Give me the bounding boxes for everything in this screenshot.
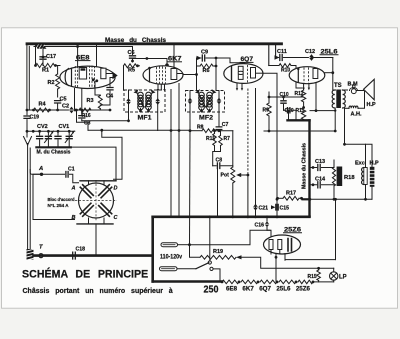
wire AVC bus y131 — [264, 111, 337, 133]
wire R18 squiggle — [332, 160, 335, 201]
variable capacitor CV1 — [55, 124, 75, 147]
wire R19 tap junction — [275, 256, 278, 259]
plug prong top — [161, 243, 191, 247]
svg-text:C3: C3 — [84, 121, 91, 127]
svg-text:MF1: MF1 — [138, 115, 152, 122]
svg-text:A.H.: A.H. — [351, 112, 362, 118]
label Masse du Chassis (top) — [105, 37, 166, 44]
svg-text:C16: C16 — [255, 223, 265, 229]
svg-text:TS: TS — [334, 83, 342, 89]
svg-text:Châssis portant un numéro supé: Châssis portant un numéro supérieur à — [23, 288, 173, 295]
rotary switch contact A — [71, 185, 94, 198]
svg-text:R4: R4 — [39, 101, 47, 107]
svg-text:R17: R17 — [286, 191, 296, 197]
wire HT drop to C11 — [269, 45, 276, 66]
capacitor C21 — [253, 89, 268, 219]
inductor Exc — [362, 168, 368, 185]
wire R5 to MF1 trimmer — [123, 66, 125, 90]
antenna — [24, 137, 32, 147]
tube 6K7 grid cap — [165, 63, 169, 67]
tube 6Q7 label — [240, 57, 254, 63]
wire B- row y199 — [310, 198, 372, 201]
resistor R17 — [276, 191, 303, 201]
wire antenna to node A hook — [30, 170, 41, 175]
switch power — [196, 215, 220, 281]
wire TS bottom right down — [343, 108, 346, 145]
svg-text:CV1: CV1 — [59, 124, 70, 130]
wire MF1 bottom taps — [139, 109, 150, 113]
tube 25Z6 envelope — [264, 235, 301, 254]
wire cathode row top — [268, 92, 305, 109]
capacitor C18 — [73, 247, 85, 260]
capacitor C12 — [305, 49, 333, 61]
transformer MF1 label — [138, 115, 152, 122]
transformer TS label — [334, 83, 342, 89]
wire thick stub y199 — [303, 198, 311, 200]
wire back-bias thick — [288, 110, 310, 215]
resistor R18 — [337, 167, 356, 187]
wire bus feed to 6E8 grids — [76, 44, 96, 67]
inductor AH — [345, 106, 362, 117]
tube 25L6 internals — [297, 68, 318, 84]
wire 25L6 plate — [318, 72, 333, 74]
svg-text:MF2: MF2 — [199, 115, 213, 122]
trimmer capacitor MF1 left — [126, 90, 131, 121]
resistor R1 — [34, 47, 60, 74]
wire D to speaker — [356, 90, 363, 92]
wire 25Z6 cathode row — [285, 259, 336, 261]
rotary switch contact D — [99, 185, 118, 198]
resistor R10 — [269, 64, 302, 88]
title SCHEMA DE PRINCIPE — [22, 268, 148, 281]
resistor R4 — [34, 101, 50, 112]
svg-text:CV2: CV2 — [37, 124, 48, 130]
capacitor C7 — [213, 122, 233, 132]
resistor R15b — [206, 131, 216, 152]
ground bus M du Chassis — [36, 147, 116, 181]
label Bloc d'accord — [48, 197, 75, 208]
transformer MF1 box — [124, 90, 165, 112]
wire 6Q7 plate junction — [263, 73, 278, 201]
tube 6E8 envelope — [60, 66, 115, 88]
svg-text:C19: C19 — [30, 114, 40, 120]
node A — [38, 166, 43, 176]
wire lamp rail — [242, 257, 334, 268]
capacitor C10 — [280, 92, 289, 110]
wire Exc HP top feeds — [345, 144, 373, 167]
tube 6E8 internals — [65, 66, 118, 89]
tube 25Z6 internals — [269, 239, 292, 255]
rotary switch crosshair — [75, 180, 117, 221]
rotary switch top bar — [80, 181, 116, 184]
resistor R5 — [124, 64, 140, 74]
svg-text:110-120v: 110-120v — [160, 254, 182, 261]
svg-text:SCHÉMA DE PRINCIPE: SCHÉMA DE PRINCIPE — [22, 268, 148, 281]
wire AVC to dial contact D — [102, 130, 122, 179]
label B.M — [348, 82, 359, 88]
wire long vertical x179 — [178, 84, 181, 217]
capacitor C15 — [271, 199, 289, 218]
capacitor C11 — [275, 49, 312, 61]
svg-text:H.P: H.P — [370, 161, 380, 167]
capacitor C4 — [100, 78, 114, 106]
resistor R12 — [295, 89, 306, 108]
svg-text:R1: R1 — [42, 68, 49, 74]
label 110-120v — [160, 254, 182, 261]
svg-text:C7: C7 — [222, 122, 229, 128]
svg-text:T: T — [39, 245, 43, 251]
svg-text:R10: R10 — [281, 68, 290, 74]
svg-text:6E8 6K7 6Q7 25L6 25Z6: 6E8 6K7 6Q7 25L6 25Z6 — [226, 286, 310, 293]
tube 6Q7 grid cap — [242, 62, 246, 66]
capacitor C6 — [128, 47, 136, 63]
resistor R9 — [263, 97, 272, 132]
tube 6E8 label — [76, 55, 91, 61]
wire grid line y110 — [27, 109, 111, 112]
wire 6K7 plate to MF2 — [183, 75, 197, 91]
svg-text:R11: R11 — [296, 108, 305, 114]
transformer MF2 box — [186, 91, 225, 113]
wire TS secondary top to BM — [342, 89, 347, 91]
svg-text:D: D — [114, 186, 118, 192]
wire AVC bus y130 — [88, 129, 191, 132]
svg-text:C20: C20 — [285, 108, 294, 114]
wire C4 plate link — [110, 77, 115, 79]
svg-text:B: B — [72, 215, 76, 221]
capacitor C16 — [255, 215, 270, 230]
svg-text:Masse du Chassis: Masse du Chassis — [302, 143, 308, 189]
capacitor C20 — [284, 108, 297, 114]
svg-text:R19: R19 — [213, 249, 223, 255]
trimmer capacitor MF2 right — [216, 91, 221, 127]
wire A to C1 — [42, 173, 65, 175]
potentiometer Pot — [221, 131, 248, 217]
svg-text:R7: R7 — [224, 136, 231, 142]
svg-text:R15: R15 — [308, 274, 317, 280]
resistor R11 — [296, 108, 306, 121]
tube 6K7 pins — [157, 84, 166, 92]
terminal T hatched — [26, 249, 34, 260]
rotary switch contact C — [99, 203, 119, 221]
resistor R8 — [190, 124, 215, 132]
heater chain — [221, 280, 334, 284]
rotary switch bottom bar — [77, 218, 113, 256]
svg-text:LP: LP — [339, 275, 347, 281]
tube 25L6 envelope — [289, 67, 325, 84]
svg-text:H.P: H.P — [367, 102, 377, 108]
lamp LP — [330, 268, 347, 282]
wire y121 row — [82, 119, 130, 122]
tube 25L6 label — [320, 49, 338, 55]
svg-text:Pot: Pot — [221, 172, 230, 178]
wire C8 junction — [213, 152, 221, 166]
tube 6Q7 internals — [232, 65, 264, 83]
rotary switch circle — [79, 183, 114, 218]
wire bottom thick line — [34, 254, 153, 257]
capacitor C1 — [66, 167, 79, 183]
capacitor C8 — [213, 157, 233, 217]
node T on line — [39, 254, 43, 258]
wire AC drop to R19 — [190, 245, 201, 258]
label tube list — [226, 286, 310, 293]
resistor R6 — [197, 64, 217, 74]
svg-text:C15: C15 — [280, 205, 290, 211]
svg-text:R5: R5 — [128, 67, 135, 73]
svg-text:R3: R3 — [87, 98, 94, 104]
wire C9 R6 left vertical — [195, 58, 198, 90]
wire screen row to AVC staircase — [75, 109, 88, 131]
tube 25L6 pins — [302, 83, 317, 113]
wire top HT bus — [27, 44, 282, 47]
wire Exc HP bottoms — [366, 185, 373, 200]
tube 6K7 label — [168, 56, 183, 62]
trimmer capacitor MF2 left — [187, 91, 192, 131]
tube 6K7 internals — [148, 67, 183, 85]
power box outline — [153, 217, 310, 282]
wire CV bus y131 — [27, 130, 75, 133]
resistor R7 — [219, 131, 230, 152]
transformer TS — [332, 90, 345, 109]
plug prong bottom — [160, 267, 197, 271]
svg-text:C6: C6 — [128, 50, 135, 56]
wire long vertical x171 — [170, 90, 173, 217]
wire speaker to AH coil — [358, 92, 365, 109]
wire bloc left side — [33, 174, 75, 219]
svg-text:C1: C1 — [68, 167, 75, 173]
transformer MF1 primary coil — [138, 92, 144, 110]
detector D — [350, 85, 358, 94]
svg-text:C5: C5 — [60, 97, 67, 103]
wire right vertical x335 — [334, 198, 337, 260]
label HP field — [370, 161, 380, 167]
field coil HP stripes — [370, 167, 375, 187]
svg-text:C2: C2 — [62, 104, 69, 110]
wire bus feed to 6K7 screen — [173, 44, 175, 68]
resistor R2 — [48, 66, 60, 98]
trimmer capacitor MF1 right — [155, 90, 160, 131]
subtitle chassis — [23, 288, 173, 295]
wire 6Q7 grid lead — [215, 57, 242, 63]
wire aerial down to T — [28, 146, 31, 256]
capacitor C17 — [40, 47, 56, 66]
wire AC top feed — [190, 230, 271, 246]
svg-text:250: 250 — [204, 285, 219, 296]
svg-text:R18: R18 — [344, 175, 355, 181]
tube 6Q7 pins — [236, 83, 243, 91]
svg-text:C8: C8 — [216, 157, 223, 163]
svg-text:C12: C12 — [305, 49, 315, 55]
svg-text:A: A — [71, 186, 76, 192]
svg-text:C21: C21 — [259, 205, 269, 211]
capacitor C5 — [55, 97, 67, 112]
node pot bottom — [231, 215, 234, 218]
variable capacitor CV2 — [37, 124, 54, 147]
capacitor C3 — [79, 110, 91, 127]
svg-text:R2: R2 — [48, 80, 55, 86]
capacitor C9 — [197, 50, 217, 62]
resistor R15 lamp — [308, 267, 321, 282]
svg-text:M. du Chassis: M. du Chassis — [37, 150, 71, 156]
transformer MF2 tuning arrows — [195, 89, 217, 107]
svg-text:R6: R6 — [203, 68, 210, 74]
wire C9 R6 right vertical — [215, 58, 218, 90]
capacitor C13 — [310, 159, 334, 171]
speaker HP — [364, 79, 377, 108]
wire TS bottom left to B+ — [310, 108, 336, 112]
resistor R3 — [87, 95, 103, 110]
wire dashed 6Q7 down — [247, 89, 249, 176]
wire wiper to dashed — [247, 174, 250, 219]
transformer MF1 secondary coil — [146, 92, 152, 110]
label Exc — [355, 161, 365, 167]
wire x188 down — [188, 131, 190, 246]
tube 6Q7 envelope — [224, 64, 263, 84]
tube 25Z6 pins — [276, 254, 285, 282]
tube 6K7 envelope — [143, 66, 183, 84]
svg-text:A: A — [38, 166, 43, 172]
wire C6 to 6K7 grid — [133, 57, 168, 64]
capacitor C19 — [24, 109, 39, 137]
transformer MF2 label — [199, 115, 213, 122]
svg-text:C17: C17 — [46, 54, 56, 60]
transformer MF2 primary coil — [199, 92, 205, 110]
svg-text:Bloc d'accord: Bloc d'accord — [48, 197, 75, 202]
resistor R16 — [79, 108, 91, 119]
hatch connector on bus — [34, 44, 47, 49]
transformer MF2 secondary coil — [207, 92, 213, 110]
tube 25Z6 label — [284, 227, 302, 233]
capacitor C14 — [310, 177, 334, 188]
wire aerial left double vertical — [27, 45, 29, 110]
wire MF2 bottom taps — [200, 109, 211, 112]
wire C12 to 25L6 plate and TS — [331, 58, 335, 91]
label T — [39, 245, 43, 251]
tube 6E8 pins — [75, 78, 99, 114]
svg-text:C18: C18 — [76, 247, 86, 253]
transformer MF1 tuning arrows — [134, 89, 156, 107]
subtitle 250 — [204, 285, 219, 296]
wire C16 to 25Z6 — [267, 230, 271, 238]
resistor R19 — [200, 249, 242, 260]
capacitor C2 — [62, 104, 74, 114]
rotary switch contact B — [72, 203, 94, 221]
svg-text:N°L 254 A: N°L 254 A — [48, 203, 70, 208]
svg-text:Exc: Exc — [355, 161, 365, 167]
label Masse du Chassis (vertical) — [302, 143, 308, 189]
